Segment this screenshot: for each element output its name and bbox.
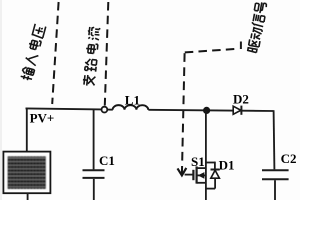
arrowhead pointing to gate of S1	[178, 168, 187, 176]
diode D2 triangle	[233, 106, 241, 114]
capacitor C2 bottom lead	[274, 180, 276, 200]
svg-text:C1: C1	[99, 153, 115, 168]
mosfet S1 drain-source vertical line	[205, 110, 207, 200]
wire segment inductor to corner	[148, 110, 273, 111]
mosfet S1 gate lead	[185, 174, 193, 176]
capacitor C2 plates	[262, 169, 289, 171]
wire main top rail middle segment	[107, 109, 113, 111]
svg-text:D2: D2	[233, 91, 249, 106]
wire below solar panel	[27, 193, 29, 200]
mosfet S1 source stub	[197, 182, 206, 184]
mosfet S1 body stub with arrow	[197, 174, 206, 176]
diode D1 cathode bar	[211, 169, 220, 171]
scan edge artifact left	[0, 0, 2, 200]
node circle on wire	[102, 107, 108, 113]
capacitor C1 plates	[83, 169, 105, 171]
inductor L1	[113, 105, 149, 110]
mosfet S1 drain stub	[197, 167, 206, 169]
solar panel PV module frame	[3, 152, 50, 194]
label text 驱动信号 (drive signal), rotated	[248, 39, 260, 53]
dashed annotation line for drive signal with corner	[185, 49, 240, 53]
solar panel cell grid	[8, 156, 46, 188]
dashed annotation line for branch current	[105, 2, 109, 106]
svg-text:L1: L1	[125, 93, 140, 108]
wire main top rail left segment	[26, 108, 102, 109]
svg-text:S1: S1	[191, 154, 205, 169]
wire PV+ branch vertical	[26, 108, 28, 151]
diode D2 cathode bar	[240, 106, 242, 115]
diode D1 anode lead	[214, 178, 216, 188]
tick at end of drive signal dashed line	[240, 42, 242, 50]
mosfet S1 channel bar	[196, 166, 198, 183]
label text 输入电压 (input voltage), rotated	[20, 66, 35, 81]
diode D1 cathode branch	[206, 162, 215, 164]
mosfet S1 gate bar	[192, 170, 194, 180]
svg-text:D1: D1	[219, 158, 235, 173]
label text 支路电流 (branch current), rotated	[82, 75, 95, 87]
capacitor C2 top lead with corner	[273, 110, 276, 169]
dashed annotation line for input voltage	[52, 2, 58, 104]
diode D1 triangle	[211, 170, 220, 178]
capacitor C1 top lead	[93, 109, 95, 169]
svg-text:PV+: PV+	[30, 111, 55, 126]
junction dot	[203, 107, 210, 114]
svg-text:C2: C2	[281, 151, 297, 166]
capacitor C1 bottom lead	[93, 179, 95, 200]
diode D1 anode branch	[206, 188, 215, 190]
